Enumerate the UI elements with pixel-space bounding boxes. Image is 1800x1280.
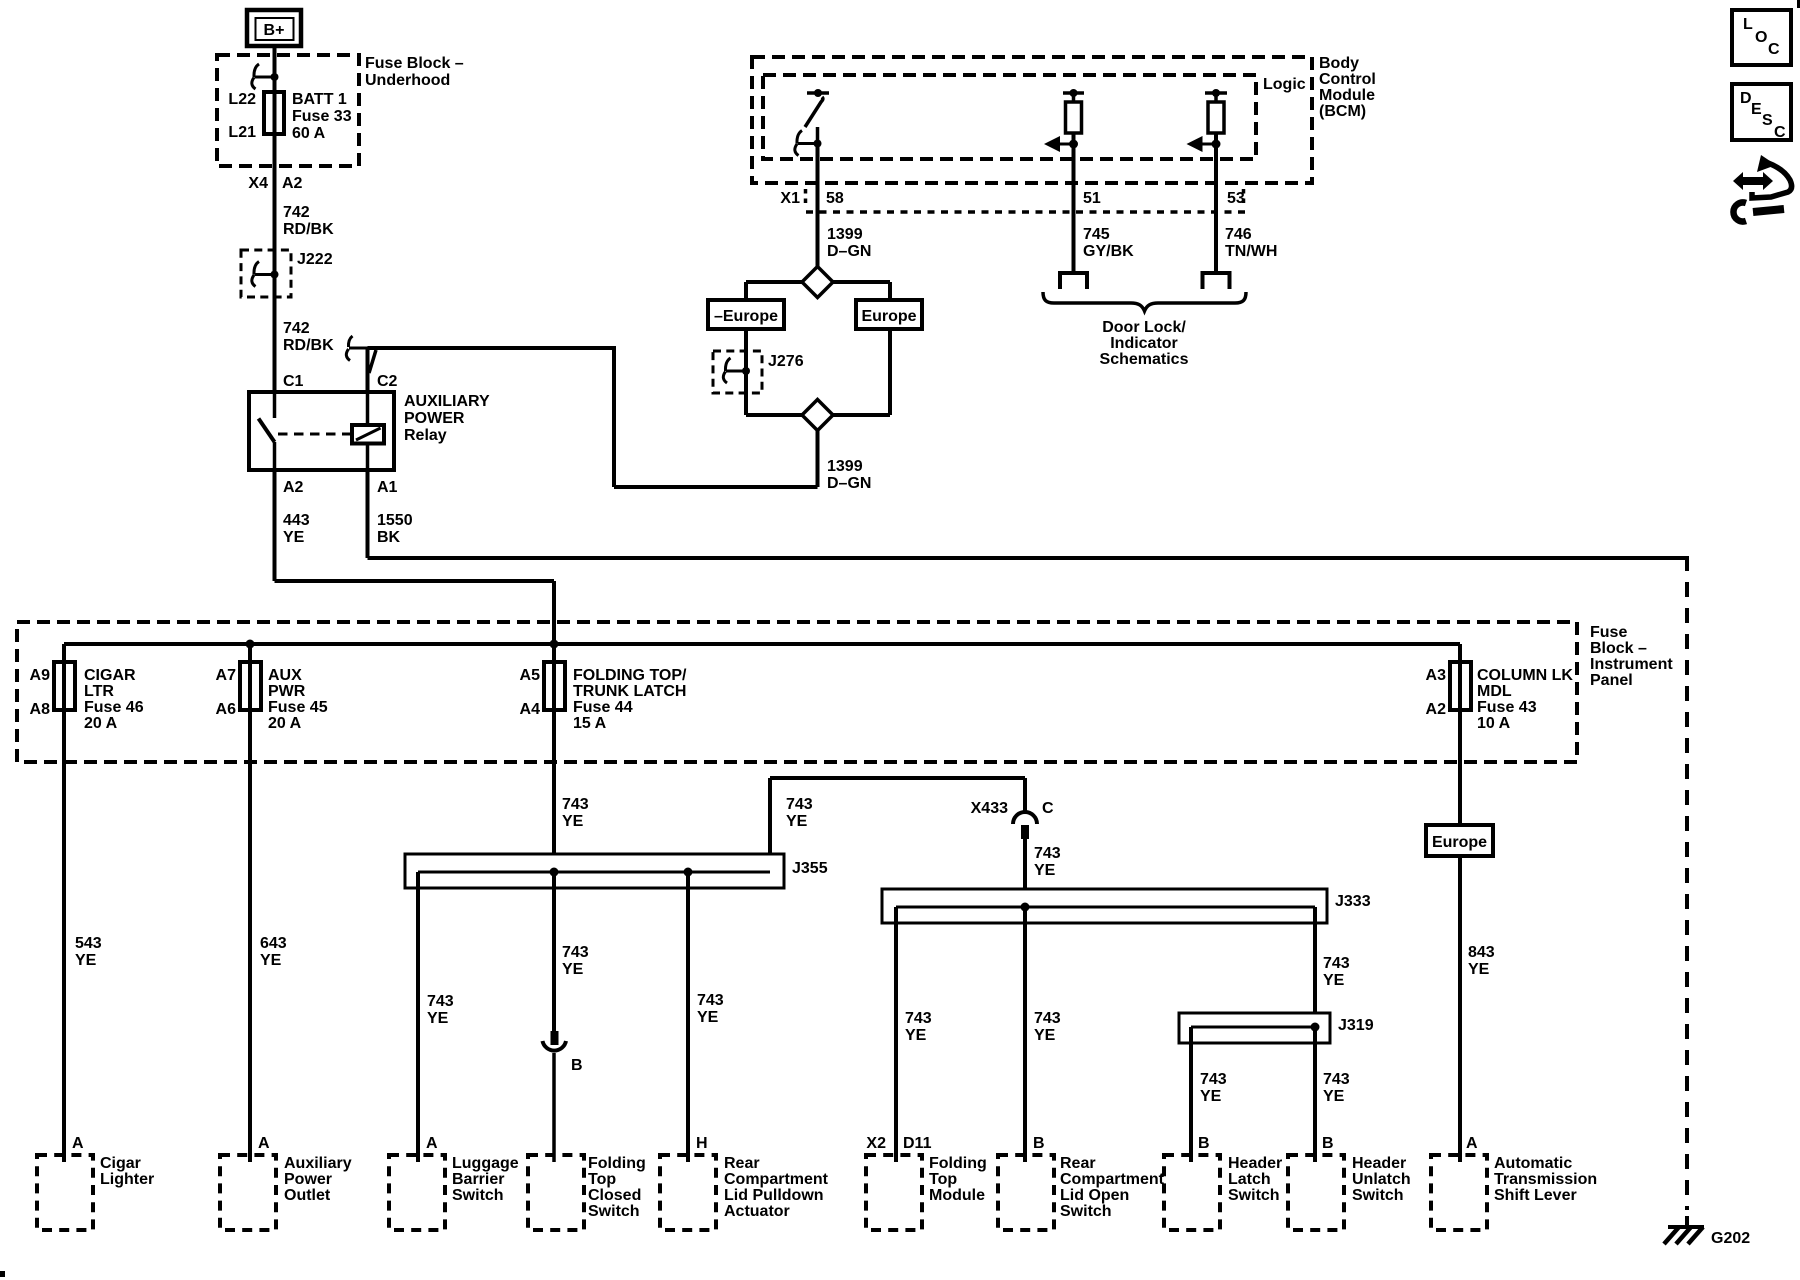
fuse bus bar <box>64 642 1460 646</box>
svg-text:A4: A4 <box>520 701 541 718</box>
svg-text:TRUNK LATCH: TRUNK LATCH <box>573 683 686 700</box>
svg-text:743: 743 <box>905 1010 932 1027</box>
option box Europe <box>856 300 922 329</box>
svg-text:15 A: 15 A <box>573 715 607 732</box>
svg-text:Switch: Switch <box>452 1187 504 1204</box>
BCM switch fixed contact <box>807 91 829 95</box>
svg-text:POWER: POWER <box>404 410 465 427</box>
J355 bus bar <box>418 871 770 874</box>
connector folding top module <box>866 1155 922 1230</box>
svg-text:A: A <box>426 1135 438 1152</box>
svg-text:O: O <box>1755 29 1767 46</box>
svg-text:A2: A2 <box>282 175 303 192</box>
svg-text:YE: YE <box>1323 1088 1345 1105</box>
svg-text:Instrument: Instrument <box>1590 656 1673 673</box>
svg-text:Top: Top <box>588 1171 616 1188</box>
svg-text:443: 443 <box>283 512 310 529</box>
svg-text:COLUMN LK: COLUMN LK <box>1477 667 1573 684</box>
svg-text:YE: YE <box>1034 1027 1056 1044</box>
connector pin C2 <box>349 347 368 350</box>
resistor R51 <box>1072 93 1076 102</box>
svg-text:743: 743 <box>562 796 589 813</box>
svg-text:YE: YE <box>1468 961 1490 978</box>
wire A2 down <box>273 470 277 581</box>
svg-text:1399: 1399 <box>827 458 863 475</box>
connector cigar lighter <box>37 1155 93 1230</box>
wire J319 to header latch switch <box>1189 1027 1193 1162</box>
svg-text:YE: YE <box>283 529 305 546</box>
svg-text:H: H <box>696 1135 708 1152</box>
svg-text:Europe: Europe <box>861 308 916 325</box>
upper option diamond <box>802 267 833 298</box>
option box -Europe <box>708 300 784 329</box>
svg-text:Power: Power <box>284 1171 332 1188</box>
wire diamond to -Europe <box>746 280 803 284</box>
wire C2 horizontal right <box>368 346 615 350</box>
svg-text:X433: X433 <box>971 800 1008 817</box>
svg-text:543: 543 <box>75 935 102 952</box>
auxiliary power relay box <box>249 392 394 470</box>
svg-text:Indicator: Indicator <box>1110 335 1178 352</box>
connector X433 socket <box>1013 812 1037 824</box>
svg-text:Switch: Switch <box>588 1203 640 1220</box>
svg-text:D–GN: D–GN <box>827 475 871 492</box>
icon DESC box <box>1732 84 1791 140</box>
wire fuse46 to cigar lighter (543 YE) <box>62 644 66 1162</box>
fuse F45 AUX PWR <box>240 662 261 710</box>
relay coil C2 stub <box>366 392 370 425</box>
svg-text:Compartment: Compartment <box>724 1171 829 1188</box>
svg-text:D11: D11 <box>903 1135 932 1152</box>
svg-text:B: B <box>1033 1135 1045 1152</box>
svg-text:Top: Top <box>929 1171 957 1188</box>
svg-text:51: 51 <box>1083 190 1101 207</box>
svg-text:Outlet: Outlet <box>284 1187 331 1204</box>
svg-text:Europe: Europe <box>1432 834 1487 851</box>
svg-text:743: 743 <box>1200 1071 1227 1088</box>
bus junction dot A7 <box>246 640 255 649</box>
wire 443 YE horizontal <box>275 579 555 583</box>
svg-text:Control: Control <box>1319 71 1376 88</box>
svg-text:Compartment: Compartment <box>1060 1171 1165 1188</box>
fuse F33 BATT 1 <box>264 92 284 134</box>
svg-text:Door Lock/: Door Lock/ <box>1102 319 1186 336</box>
svg-text:BATT 1: BATT 1 <box>292 91 347 108</box>
svg-text:746: 746 <box>1225 226 1252 243</box>
svg-text:YE: YE <box>1323 972 1345 989</box>
svg-text:D: D <box>1740 90 1752 107</box>
svg-text:843: 843 <box>1468 944 1495 961</box>
svg-text:Folding: Folding <box>588 1155 646 1172</box>
connector pin J276 <box>726 370 746 373</box>
wire to lower diamond right <box>832 413 890 417</box>
svg-text:YE: YE <box>562 813 584 830</box>
svg-text:D–GN: D–GN <box>827 243 871 260</box>
svg-text:A5: A5 <box>520 667 541 684</box>
svg-text:YE: YE <box>697 1009 719 1026</box>
wire J355 up to X433 <box>768 778 772 854</box>
J333 bus bar <box>896 906 1315 909</box>
svg-text:Auxiliary: Auxiliary <box>284 1155 352 1172</box>
BCM resistor pin 53 top bar <box>1205 91 1227 95</box>
svg-text:Body: Body <box>1319 55 1359 72</box>
plug symbol wire 746 <box>1201 271 1232 275</box>
svg-text:Fuse 46: Fuse 46 <box>84 699 144 716</box>
svg-text:Schematics: Schematics <box>1100 351 1189 368</box>
svg-text:Header: Header <box>1228 1155 1282 1172</box>
svg-text:Logic: Logic <box>1263 76 1306 93</box>
svg-text:Header: Header <box>1352 1155 1406 1172</box>
svg-text:YE: YE <box>1200 1088 1222 1105</box>
svg-text:Shift Lever: Shift Lever <box>1494 1187 1577 1204</box>
svg-text:58: 58 <box>826 190 844 207</box>
svg-text:YE: YE <box>75 952 97 969</box>
resistor R53 <box>1214 93 1218 102</box>
svg-text:20 A: 20 A <box>84 715 118 732</box>
connector pin J222 <box>255 273 275 276</box>
svg-text:Rear: Rear <box>724 1155 760 1172</box>
relay switch to A2 stub <box>273 442 277 470</box>
wire 443 YE down to fuse block <box>552 581 556 648</box>
wire fuse44 down to J355 <box>552 648 556 854</box>
connector folding top closed switch <box>528 1155 584 1230</box>
svg-text:BK: BK <box>377 529 401 546</box>
wire J355 to luggage barrier switch <box>416 872 420 1162</box>
body control module dashed box <box>752 57 1312 183</box>
svg-text:B+: B+ <box>264 22 285 39</box>
svg-text:YE: YE <box>427 1010 449 1027</box>
svg-text:C2: C2 <box>377 373 398 390</box>
svg-text:A2: A2 <box>283 479 304 496</box>
svg-text:Fuse: Fuse <box>1590 624 1627 641</box>
svg-text:743: 743 <box>786 796 813 813</box>
svg-text:Module: Module <box>929 1187 985 1204</box>
icon LOC box <box>1732 10 1791 65</box>
svg-text:743: 743 <box>697 992 724 1009</box>
svg-text:743: 743 <box>1034 1010 1061 1027</box>
connector automatic transmission shift lever <box>1431 1155 1487 1230</box>
svg-text:B: B <box>571 1057 583 1074</box>
J319 dot <box>1311 1023 1320 1032</box>
wire inline connector to folding top closed switch <box>552 1053 556 1162</box>
svg-text:J333: J333 <box>1335 893 1371 910</box>
svg-text:Switch: Switch <box>1228 1187 1280 1204</box>
svg-text:GY/BK: GY/BK <box>1083 243 1134 260</box>
svg-text:A: A <box>258 1135 270 1152</box>
wire to lower diamond left <box>746 413 803 417</box>
relay coil A1 stub <box>366 443 370 470</box>
svg-text:1399: 1399 <box>827 226 863 243</box>
brace door lock schematics <box>1043 292 1246 311</box>
svg-text:A8: A8 <box>30 701 51 718</box>
BCM logic dashed box <box>763 75 1256 159</box>
wire A1 down <box>366 470 370 558</box>
svg-text:L21: L21 <box>228 124 256 141</box>
connector X433 pin <box>1021 825 1029 839</box>
wire J333 to folding top module <box>894 907 898 1162</box>
svg-text:Transmission: Transmission <box>1494 1171 1597 1188</box>
svg-text:L: L <box>1743 16 1753 33</box>
svg-text:Unlatch: Unlatch <box>1352 1171 1411 1188</box>
svg-text:J319: J319 <box>1338 1017 1374 1034</box>
svg-text:CIGAR: CIGAR <box>84 667 136 684</box>
ground G202 symbol <box>1668 1225 1704 1229</box>
svg-text:Fuse Block –: Fuse Block – <box>365 55 464 72</box>
arrow input pin 53 <box>1214 133 1218 273</box>
option box Europe on 843 wire <box>1426 825 1493 856</box>
svg-text:J222: J222 <box>297 251 333 268</box>
svg-text:Rear: Rear <box>1060 1155 1096 1172</box>
BCM switch blade <box>805 97 823 127</box>
svg-text:10 A: 10 A <box>1477 715 1511 732</box>
relay switch blade <box>259 419 275 443</box>
svg-text:643: 643 <box>260 935 287 952</box>
J355 dot fuse44 wire <box>550 868 559 877</box>
svg-text:A: A <box>72 1135 84 1152</box>
svg-text:A2: A2 <box>1426 701 1447 718</box>
svg-text:743: 743 <box>427 993 454 1010</box>
svg-text:745: 745 <box>1083 226 1110 243</box>
splice J222 dashed box <box>241 250 291 297</box>
wire J333 to lid open switch <box>1023 907 1027 1162</box>
svg-text:YE: YE <box>905 1027 927 1044</box>
fuse block instrument panel dashed box <box>17 622 1577 762</box>
arrow input pin 51 <box>1072 133 1076 273</box>
connector X1 dotted pin row <box>806 210 1250 214</box>
svg-text:Lid Open: Lid Open <box>1060 1187 1129 1204</box>
svg-text:Fuse 33: Fuse 33 <box>292 108 352 125</box>
icon wrench <box>1753 209 1784 212</box>
connector header latch switch <box>1164 1155 1220 1230</box>
svg-text:Folding: Folding <box>929 1155 987 1172</box>
svg-text:C: C <box>1042 800 1054 817</box>
svg-text:Actuator: Actuator <box>724 1203 790 1220</box>
splice pack J333 box <box>882 889 1327 923</box>
wire down at x614 <box>612 346 616 487</box>
wire right to lower diamond <box>614 485 818 489</box>
connector pin at fuse block input <box>255 76 275 79</box>
fuse F44 FOLDING TOP TRUNK LATCH <box>544 662 565 710</box>
wire across to X433 <box>770 776 1025 780</box>
wire fuse45 to aux power outlet (643 YE) <box>248 644 252 1162</box>
BCM resistor pin 51 top bar <box>1063 91 1084 95</box>
svg-text:J276: J276 <box>768 353 804 370</box>
plug symbol wire 745 <box>1058 271 1089 275</box>
fuse F46 CIGAR LTR <box>54 662 75 710</box>
svg-text:RD/BK: RD/BK <box>283 221 334 238</box>
svg-text:G202: G202 <box>1711 1230 1750 1247</box>
connector auxiliary power outlet <box>220 1155 276 1230</box>
svg-text:743: 743 <box>562 944 589 961</box>
svg-text:Underhood: Underhood <box>365 72 450 89</box>
wire J355 to lid pulldown actuator <box>686 872 690 1162</box>
wire J355 to folding top closed switch upper <box>552 872 556 1031</box>
svg-text:Block –: Block – <box>1590 640 1647 657</box>
battery feed B+ terminal <box>247 10 301 46</box>
svg-text:Panel: Panel <box>1590 672 1633 689</box>
connector rear compartment lid pulldown actuator <box>660 1155 716 1230</box>
splice pack J319 box <box>1179 1013 1330 1043</box>
svg-text:AUXILIARY: AUXILIARY <box>404 393 490 410</box>
svg-text:B: B <box>1198 1135 1210 1152</box>
svg-text:A1: A1 <box>377 479 398 496</box>
svg-text:742: 742 <box>283 320 310 337</box>
svg-text:E: E <box>1751 101 1762 118</box>
J355 dot actuator wire <box>684 868 693 877</box>
svg-text:53: 53 <box>1227 190 1245 207</box>
wire lower diamond down <box>816 430 820 487</box>
icon bent arrow outline <box>1757 155 1776 172</box>
svg-text:X4: X4 <box>248 175 268 192</box>
connector barb at C2 <box>369 350 376 373</box>
svg-text:Automatic: Automatic <box>1494 1155 1572 1172</box>
svg-text:1550: 1550 <box>377 512 413 529</box>
svg-text:60 A: 60 A <box>292 125 326 142</box>
svg-text:X1: X1 <box>780 190 800 207</box>
svg-text:Closed: Closed <box>588 1187 641 1204</box>
svg-text:20 A: 20 A <box>268 715 302 732</box>
wire J319 to header unlatch switch <box>1313 1027 1317 1162</box>
svg-text:Switch: Switch <box>1060 1203 1112 1220</box>
svg-text:YE: YE <box>1034 862 1056 879</box>
svg-text:C: C <box>1768 41 1780 58</box>
svg-text:LTR: LTR <box>84 683 114 700</box>
splice pack J355 box <box>405 854 784 888</box>
BCM switch output stub <box>816 127 820 144</box>
fuse F43 COLUMN LK MDL <box>1450 662 1471 710</box>
svg-text:Relay: Relay <box>404 427 447 444</box>
wire fuse43 to shift lever (843 YE) <box>1458 644 1462 1162</box>
icon navigation double arrow <box>1733 172 1773 190</box>
svg-text:Module: Module <box>1319 87 1375 104</box>
inline connector B pin <box>551 1031 559 1045</box>
svg-text:743: 743 <box>1323 955 1350 972</box>
svg-text:C1: C1 <box>283 373 304 390</box>
svg-text:A3: A3 <box>1426 667 1447 684</box>
J319 bus bar <box>1191 1026 1315 1029</box>
svg-text:Cigar: Cigar <box>100 1155 141 1172</box>
lower option diamond <box>802 400 833 431</box>
svg-text:Luggage: Luggage <box>452 1155 519 1172</box>
connector rear compartment lid open switch <box>998 1155 1054 1230</box>
svg-text:S: S <box>1762 112 1773 129</box>
relay actuation dashed link <box>278 433 352 436</box>
bus junction dot A5 <box>550 640 559 649</box>
svg-text:AUX: AUX <box>268 667 302 684</box>
wire 1550 BK horizontal <box>368 556 1688 560</box>
BCM internal pin symbol <box>798 142 818 145</box>
wire 1550 BK dashed vertical to ground <box>1685 556 1689 1210</box>
svg-text:A: A <box>1466 1135 1478 1152</box>
svg-text:L22: L22 <box>228 91 256 108</box>
svg-text:(BCM): (BCM) <box>1319 103 1366 120</box>
svg-text:Lid Pulldown: Lid Pulldown <box>724 1187 824 1204</box>
wire diamond to Europe <box>832 280 890 284</box>
fuse block underhood dashed box <box>217 55 359 166</box>
svg-text:A9: A9 <box>30 667 51 684</box>
svg-text:A6: A6 <box>216 701 237 718</box>
wire Europe down <box>888 329 892 415</box>
svg-text:TN/WH: TN/WH <box>1225 243 1277 260</box>
svg-text:C: C <box>1774 124 1786 141</box>
svg-text:J355: J355 <box>792 860 828 877</box>
svg-text:A7: A7 <box>216 667 237 684</box>
wire X433 to J333 <box>1023 839 1027 889</box>
svg-text:Switch: Switch <box>1352 1187 1404 1204</box>
wire J333 to J319 <box>1313 907 1317 1013</box>
splice J276 dashed box <box>713 351 762 393</box>
svg-text:Fuse 45: Fuse 45 <box>268 699 328 716</box>
svg-text:YE: YE <box>786 813 808 830</box>
svg-text:YE: YE <box>562 961 584 978</box>
connector header unlatch switch <box>1288 1155 1344 1230</box>
svg-text:RD/BK: RD/BK <box>283 337 334 354</box>
svg-text:–Europe: –Europe <box>714 308 778 325</box>
wire pin 58 inside BCM <box>816 144 820 268</box>
svg-text:Fuse 43: Fuse 43 <box>1477 699 1537 716</box>
svg-text:743: 743 <box>1323 1071 1350 1088</box>
svg-text:B: B <box>1322 1135 1334 1152</box>
svg-text:FOLDING TOP/: FOLDING TOP/ <box>573 667 687 684</box>
wire -Europe down <box>744 329 748 415</box>
svg-text:Latch: Latch <box>1228 1171 1271 1188</box>
connector luggage barrier switch <box>389 1155 445 1230</box>
wire C2 up <box>366 348 370 392</box>
wire pin58 to diamond <box>816 212 820 267</box>
svg-text:Barrier: Barrier <box>452 1171 504 1188</box>
svg-text:X2: X2 <box>866 1135 886 1152</box>
wire B+ to relay C1 (main vertical) <box>273 46 277 392</box>
J333 dot <box>1021 903 1030 912</box>
page corner marks <box>1797 0 1800 8</box>
svg-text:MDL: MDL <box>1477 683 1512 700</box>
relay coil <box>352 425 384 444</box>
svg-text:742: 742 <box>283 204 310 221</box>
svg-text:YE: YE <box>260 952 282 969</box>
svg-text:PWR: PWR <box>268 683 306 700</box>
svg-text:Lighter: Lighter <box>100 1171 154 1188</box>
svg-text:Fuse 44: Fuse 44 <box>573 699 633 716</box>
svg-text:743: 743 <box>1034 845 1061 862</box>
relay switch contact C1 stub <box>273 392 277 418</box>
